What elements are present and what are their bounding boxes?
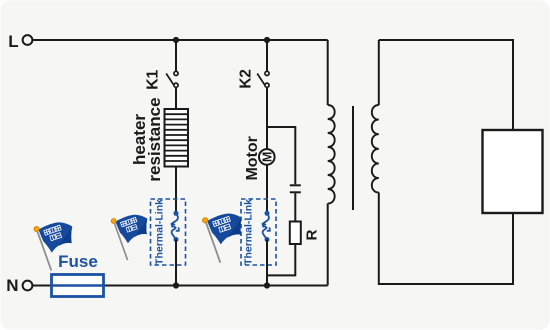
svg-text:Thermal-Link: Thermal-Link	[153, 199, 165, 265]
transformer T1 secondary stem top	[378, 40, 380, 105]
transformer T1 primary winding	[328, 105, 335, 204]
wire secondary loop	[379, 40, 513, 284]
transformer T1 primary stem top	[327, 40, 329, 105]
node junction K1 branch on L	[173, 37, 179, 43]
svg-text:Fuse: Fuse	[58, 252, 98, 271]
wire R to motor branch	[267, 244, 295, 275]
resistor R body	[290, 222, 301, 245]
flag marker 3 (Thermal-Link 2)	[203, 214, 242, 263]
switch K1	[166, 71, 178, 87]
capacitor C1	[290, 185, 301, 192]
node junction K2 branch on N	[264, 282, 270, 288]
switch K2	[257, 71, 269, 87]
label heater resistance	[130, 97, 164, 181]
wire K1 to heater	[175, 88, 177, 109]
wire N line bottom	[32, 285, 327, 287]
svg-text:M: M	[260, 152, 274, 162]
svg-text:L: L	[8, 32, 18, 51]
node L terminal circle	[23, 35, 33, 45]
transformer T1 secondary winding	[372, 105, 379, 193]
svg-text:resistance: resistance	[145, 97, 164, 181]
svg-text:K2: K2	[238, 69, 255, 88]
flag marker 1 (Fuse)	[34, 222, 72, 270]
flag marker 2 (Thermal-Link 1)	[111, 215, 147, 260]
thermal fuse TL1 element	[172, 211, 179, 242]
fuse F1 body	[52, 275, 104, 297]
svg-text:K1: K1	[145, 70, 162, 90]
resistor heater resistance body	[165, 109, 189, 167]
thermal fuse TL1 dashed box	[151, 199, 186, 265]
transformer T1 core	[352, 106, 354, 210]
svg-text:R: R	[303, 229, 320, 240]
fuse F1 center line	[52, 284, 104, 286]
svg-text:Motor: Motor	[244, 136, 261, 180]
node junction K1 branch on N	[173, 282, 179, 288]
node junction K2 branch on L	[264, 37, 270, 43]
thermal fuse TL2 dashed box	[241, 199, 276, 265]
wire K2 branch upper	[266, 40, 268, 71]
node N terminal circle	[23, 281, 33, 291]
wire heater to thermal-link 1	[175, 167, 177, 215]
wire K1 branch upper	[175, 40, 177, 71]
wire capacitor branch horizontal	[267, 127, 295, 184]
wire motor to thermal-link 2	[266, 165, 268, 214]
svg-text:N: N	[6, 276, 18, 295]
motor M1 circle	[259, 149, 275, 165]
wire K2 to motor	[266, 88, 268, 149]
load RL box	[483, 130, 543, 213]
wire thermal-link 2 to N	[266, 240, 268, 286]
thermal fuse TL2 element	[263, 211, 270, 242]
wire primary to N	[327, 204, 329, 286]
wire capacitor to R	[294, 193, 296, 221]
wire thermal-link 1 to N	[175, 240, 177, 286]
wire L line top	[32, 39, 327, 41]
svg-text:Thermal-Link: Thermal-Link	[243, 199, 255, 265]
